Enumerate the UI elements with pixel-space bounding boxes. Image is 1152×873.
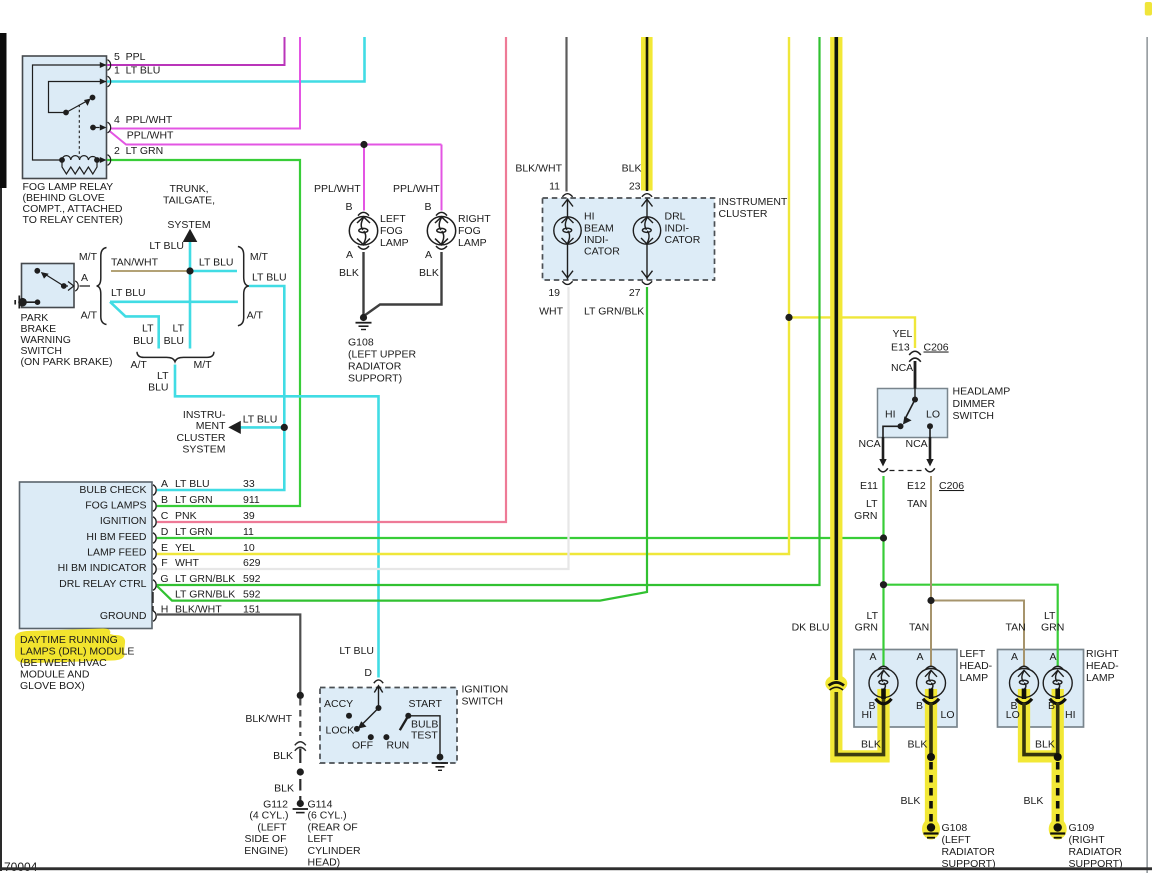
svg-text:(6 CYL.): (6 CYL.)	[308, 810, 347, 822]
svg-text:START: START	[409, 698, 443, 710]
svg-text:LO: LO	[941, 709, 955, 721]
svg-text:LT BLU: LT BLU	[111, 287, 146, 299]
ignition ground wire	[408, 716, 440, 756]
svg-text:SIDE OF: SIDE OF	[244, 833, 286, 845]
wire BLK core cluster pin 23	[646, 37, 649, 191]
svg-text:A: A	[869, 651, 876, 663]
svg-text:YEL: YEL	[175, 542, 195, 554]
svg-text:DK BLU: DK BLU	[792, 622, 830, 634]
svg-text:C206: C206	[939, 480, 964, 492]
svg-text:SUPPORT): SUPPORT)	[348, 373, 402, 385]
highlighter bulge at DK BLU inline connector	[825, 675, 847, 692]
svg-text:TAN: TAN	[907, 498, 927, 510]
svg-text:C: C	[161, 510, 169, 522]
wire BLK/WHT dashed to connector	[299, 699, 301, 736]
svg-text:INDI-: INDI-	[665, 223, 690, 235]
junction dot PPL/WHT fog feed	[360, 141, 367, 148]
svg-text:HI BM FEED: HI BM FEED	[86, 531, 147, 543]
wire LT BLU module pin A	[157, 286, 284, 490]
svg-text:RUN: RUN	[387, 740, 410, 752]
cluster lamp DRL indicator	[633, 194, 660, 285]
svg-text:CATOR: CATOR	[584, 246, 620, 258]
inline connector BLK/WHT to BLK	[295, 742, 306, 751]
svg-text:70004: 70004	[4, 860, 38, 873]
wire PPL/WHT relay pin 4	[110, 37, 300, 129]
svg-text:LT BLU: LT BLU	[243, 414, 278, 426]
highlighter blob at ground G109	[1049, 819, 1067, 840]
svg-text:B: B	[345, 201, 352, 213]
highlighter band on DK BLU wire to left headlamp HI	[836, 37, 883, 756]
svg-text:GROUND: GROUND	[100, 610, 147, 622]
svg-text:LT: LT	[867, 610, 879, 622]
headlamp dimmer switch box	[878, 389, 948, 438]
relay coil humps	[62, 156, 97, 160]
svg-text:(4 CYL.): (4 CYL.)	[249, 810, 288, 822]
headlamp bulb right HI	[1043, 666, 1072, 697]
svg-text:FOG: FOG	[458, 225, 481, 237]
svg-text:PPL/WHT: PPL/WHT	[127, 130, 174, 142]
svg-text:592: 592	[243, 589, 261, 601]
svg-text:BLK: BLK	[1035, 739, 1055, 751]
headlamp bulb left LO	[917, 666, 946, 697]
junction dot YEL E13 branch	[785, 314, 792, 321]
svg-text:LAMP: LAMP	[458, 237, 487, 249]
svg-text:RIGHT: RIGHT	[458, 213, 491, 225]
svg-text:H: H	[161, 604, 169, 616]
ignition internal dots	[376, 705, 382, 711]
svg-text:BLU: BLU	[148, 382, 168, 394]
svg-text:LEFT: LEFT	[380, 213, 406, 225]
svg-text:BLK/WHT: BLK/WHT	[245, 713, 292, 725]
svg-text:LAMP: LAMP	[1086, 672, 1115, 684]
dimmer lever	[906, 400, 916, 419]
svg-text:FOG: FOG	[380, 225, 403, 237]
svg-text:BLU: BLU	[164, 335, 184, 347]
svg-text:E11: E11	[860, 480, 878, 492]
svg-text:BLK: BLK	[622, 163, 642, 175]
svg-text:BLK: BLK	[1024, 795, 1044, 807]
svg-text:TAN: TAN	[909, 622, 929, 634]
svg-text:C206: C206	[924, 342, 949, 354]
dimmer internal feed line	[914, 361, 917, 389]
svg-text:RADIATOR: RADIATOR	[942, 846, 996, 858]
left page border bar	[0, 33, 7, 188]
svg-text:B: B	[916, 700, 923, 712]
svg-text:39: 39	[243, 510, 255, 522]
svg-text:PPL/WHT: PPL/WHT	[393, 183, 440, 195]
arrow to trunk tailgate system	[183, 229, 198, 242]
ignition switch pin D arc and arrow	[362, 680, 441, 756]
svg-text:INSTRUMENT: INSTRUMENT	[719, 196, 788, 208]
svg-text:YEL: YEL	[893, 328, 913, 340]
svg-text:11: 11	[243, 526, 254, 538]
headlamp bulb right LO	[1010, 666, 1039, 697]
dimmer LO wire	[929, 426, 931, 437]
svg-text:HI: HI	[885, 409, 896, 421]
svg-text:DAYTIME RUNNING: DAYTIME RUNNING	[20, 634, 118, 646]
junction dot TAN headlamp branch	[927, 597, 934, 604]
svg-text:A/T: A/T	[131, 359, 148, 371]
svg-text:TAN/WHT: TAN/WHT	[111, 257, 159, 269]
connector C206 dashed link	[890, 470, 925, 472]
svg-text:A: A	[425, 249, 432, 261]
wire BLK/WHT module pin H	[157, 615, 300, 696]
dimmer internal dots	[912, 397, 918, 403]
park brake internal dots	[34, 268, 40, 274]
svg-text:M/T: M/T	[250, 251, 269, 263]
svg-text:CYLINDER: CYLINDER	[308, 845, 362, 857]
wire DK BLU core upper	[834, 37, 838, 680]
headlamp bulb left HI	[869, 666, 898, 697]
ground G109 right radiator support	[1050, 823, 1065, 837]
svg-text:HEAD-: HEAD-	[960, 660, 993, 672]
svg-text:BLK/WHT: BLK/WHT	[175, 604, 222, 616]
svg-text:BULB CHECK: BULB CHECK	[79, 484, 146, 496]
svg-text:E: E	[161, 542, 168, 554]
svg-text:INDI-: INDI-	[584, 234, 609, 246]
svg-text:23: 23	[629, 181, 641, 193]
svg-text:HI: HI	[584, 211, 595, 223]
svg-text:A: A	[1011, 651, 1018, 663]
wire LT GRN module pin D to splice	[157, 537, 884, 539]
relay coil resistor zigzag	[62, 160, 97, 174]
svg-text:IGNITION: IGNITION	[100, 515, 147, 527]
svg-text:4 PPL/WHT: 4 PPL/WHT	[114, 114, 173, 126]
instrument cluster box (dashed)	[543, 198, 715, 280]
svg-text:G108: G108	[348, 337, 374, 349]
svg-text:SYSTEM: SYSTEM	[182, 443, 225, 455]
svg-text:E12: E12	[907, 480, 926, 492]
svg-text:M/T: M/T	[194, 359, 213, 371]
relay pin arcs	[108, 60, 111, 166]
svg-text:CLUSTER: CLUSTER	[176, 432, 225, 444]
svg-text:BLK: BLK	[901, 795, 921, 807]
svg-text:CLUSTER: CLUSTER	[719, 208, 768, 220]
svg-text:TO RELAY CENTER): TO RELAY CENTER)	[23, 214, 123, 226]
dimmer pin arrowheads E11 E12	[879, 459, 933, 467]
module pin G bracket	[152, 592, 154, 611]
park brake ground contact	[15, 296, 37, 309]
wire LT BLU branch to instrument cluster system	[241, 426, 285, 429]
svg-text:LT: LT	[866, 498, 878, 510]
relay actuation dashed link	[78, 105, 80, 158]
headlamp bulb right LO thick pin B and wire	[1016, 689, 1056, 755]
svg-text:PNK: PNK	[175, 510, 197, 522]
svg-text:RADIATOR: RADIATOR	[348, 361, 402, 373]
junction dot park brake TAN/WHT LT BLU	[186, 267, 193, 274]
svg-text:A/T: A/T	[247, 310, 264, 322]
headlamp bulb left LO thick pin B and ground wire	[923, 689, 939, 825]
relay arrowheads	[84, 62, 107, 163]
svg-text:M/T: M/T	[79, 251, 98, 263]
ground G112 G114	[293, 800, 308, 813]
svg-text:GLOVE BOX): GLOVE BOX)	[20, 680, 85, 692]
svg-text:NCA: NCA	[859, 438, 881, 450]
svg-text:G: G	[160, 573, 168, 585]
wire LT BLU A/T row	[110, 302, 238, 349]
svg-text:OFF: OFF	[352, 740, 373, 752]
highlighter band on right headlamp LO ground wire	[1024, 689, 1058, 756]
svg-text:LT GRN/BLK: LT GRN/BLK	[584, 306, 644, 318]
cluster lamp HI BEAM indicator	[554, 194, 581, 285]
svg-text:911: 911	[243, 494, 260, 506]
svg-text:DRL RELAY CTRL: DRL RELAY CTRL	[59, 578, 146, 590]
wire YEL module pin E	[157, 37, 789, 554]
svg-text:MODULE AND: MODULE AND	[20, 669, 90, 681]
right brace M/T A/T	[238, 247, 249, 326]
svg-text:LAMP: LAMP	[380, 237, 409, 249]
svg-text:RADIATOR: RADIATOR	[1069, 846, 1123, 858]
svg-text:(LEFT: (LEFT	[257, 822, 287, 834]
wire BLK stub below connector	[299, 749, 301, 764]
relay switch lever	[66, 102, 86, 113]
svg-text:HEADLAMP: HEADLAMP	[953, 386, 1011, 398]
svg-text:CATOR: CATOR	[665, 234, 701, 246]
wire BLK right fog lamp ground	[365, 252, 442, 316]
wire BLK dashed to G112	[299, 779, 301, 800]
svg-text:BLU: BLU	[133, 335, 153, 347]
fog lamp relay box	[23, 56, 107, 179]
svg-text:A: A	[161, 478, 168, 490]
wire PPL/WHT to fog lamps	[110, 131, 442, 211]
svg-text:LT BLU: LT BLU	[175, 478, 210, 490]
svg-text:A: A	[1049, 651, 1056, 663]
svg-text:(LEFT UPPER: (LEFT UPPER	[348, 349, 416, 361]
svg-text:HI: HI	[862, 709, 873, 721]
wire LT GRN/BLK module pin G to cluster pin 27	[157, 287, 647, 601]
svg-text:ACCY: ACCY	[324, 698, 353, 710]
highlighter band on right headlamp HI ground wire	[1052, 689, 1064, 828]
wire LT BLU relay pin 1	[107, 37, 365, 82]
park brake pin arc	[75, 281, 78, 291]
svg-text:NCA: NCA	[891, 362, 913, 374]
DRL module box	[20, 482, 153, 629]
svg-text:B: B	[1048, 700, 1055, 712]
wire BLK/WHT cluster pin 11	[565, 37, 567, 192]
svg-text:SWITCH: SWITCH	[462, 696, 503, 708]
relay internal wire pin 5 to coil	[33, 65, 107, 160]
svg-text:LEFT: LEFT	[960, 648, 986, 660]
svg-text:BLK: BLK	[861, 739, 881, 751]
svg-text:LO: LO	[926, 409, 940, 421]
svg-text:D: D	[364, 667, 372, 679]
svg-text:629: 629	[243, 557, 261, 569]
svg-text:PPL/WHT: PPL/WHT	[314, 183, 361, 195]
ignition switch lever	[362, 708, 379, 725]
dimmer lever arrowhead	[903, 416, 912, 424]
wire LT BLU trunk system vertical	[189, 242, 192, 349]
svg-text:(BETWEEN HVAC: (BETWEEN HVAC	[20, 657, 107, 669]
svg-text:11: 11	[549, 181, 560, 193]
svg-text:33: 33	[243, 478, 255, 490]
arrow to instrument cluster system	[228, 421, 241, 434]
svg-text:151: 151	[243, 604, 261, 616]
svg-text:GRN: GRN	[855, 622, 878, 634]
svg-text:A: A	[346, 249, 353, 261]
svg-text:DRL: DRL	[665, 211, 686, 223]
ignition ground symbol	[432, 754, 448, 771]
wire TAN dimmer E12 to headlamps	[931, 476, 1024, 666]
park brake warning switch box	[22, 264, 75, 308]
splice dot BLK	[297, 768, 304, 775]
svg-text:1 LT BLU: 1 LT BLU	[114, 65, 160, 77]
svg-text:BLK: BLK	[908, 739, 928, 751]
svg-text:BEAM: BEAM	[584, 223, 614, 235]
dimmer pin cup arcs E11 E12	[878, 468, 935, 472]
bottom brace A/T M/T	[137, 352, 214, 362]
highlighter blob over DRL module caption	[15, 629, 125, 664]
svg-text:LT BLU: LT BLU	[339, 645, 374, 657]
wire DK BLU core lower to left headlamp HI	[836, 692, 883, 756]
svg-text:LAMP FEED: LAMP FEED	[87, 547, 147, 559]
svg-text:10: 10	[243, 542, 255, 554]
svg-text:LAMPS (DRL) MODULE: LAMPS (DRL) MODULE	[20, 646, 134, 658]
park brake pin stub	[64, 285, 90, 287]
svg-text:BLK: BLK	[339, 267, 359, 279]
svg-text:D: D	[161, 526, 169, 538]
highlighter band on BLK wire to cluster pin 23	[641, 37, 653, 191]
svg-text:A: A	[81, 272, 88, 284]
ignition lever arrowhead	[358, 721, 367, 729]
headlamp dimmer connector C206 E13 arcs	[883, 351, 930, 460]
svg-text:LT: LT	[1044, 610, 1056, 622]
svg-text:SYSTEM: SYSTEM	[167, 219, 210, 231]
svg-text:MENT: MENT	[196, 420, 226, 432]
svg-text:LT: LT	[157, 370, 169, 382]
left page border line	[0, 188, 2, 871]
svg-text:NCA: NCA	[906, 438, 928, 450]
svg-text:BLK: BLK	[273, 750, 293, 762]
bottom border line	[0, 867, 1152, 870]
svg-text:E13: E13	[891, 342, 910, 354]
wire LT GRN relay pin 2 to module pin B	[107, 160, 300, 506]
splice dot BLK/WHT	[297, 692, 304, 699]
junction dot LT GRN pin D splice	[880, 534, 887, 541]
svg-text:HI BM INDICATOR: HI BM INDICATOR	[58, 562, 147, 574]
park brake switch lever	[46, 275, 64, 287]
svg-text:B: B	[424, 201, 431, 213]
svg-text:B: B	[161, 494, 168, 506]
svg-text:GRN: GRN	[854, 510, 877, 522]
svg-text:A/T: A/T	[81, 310, 98, 322]
ignition bulb test lever	[400, 716, 409, 730]
svg-text:ENGINE): ENGINE)	[244, 845, 288, 857]
wire TAN/WHT park brake M/T	[111, 270, 190, 272]
headlamp bulb right HI thick pin B and ground wire	[1050, 689, 1066, 825]
module pin arcs A-H	[153, 485, 156, 622]
svg-text:RIGHT: RIGHT	[1086, 648, 1119, 660]
svg-text:F: F	[161, 557, 167, 569]
wire LT BLU from braces to ignition switch pin D	[175, 365, 379, 678]
left brace M/T A/T	[97, 248, 107, 325]
svg-text:BLK: BLK	[419, 267, 439, 279]
svg-text:(LEFT: (LEFT	[942, 834, 972, 846]
relay internal wire pin 1 to switch	[49, 82, 107, 113]
ground G108 left radiator support	[924, 823, 939, 837]
ground G108 fog lamps	[356, 314, 372, 330]
right fog lamp L2	[427, 212, 455, 249]
svg-text:FOG LAMPS: FOG LAMPS	[85, 500, 146, 512]
highlighter mark top right corner	[1145, 2, 1152, 16]
svg-text:G109: G109	[1069, 822, 1095, 834]
junction dot LT BLU cluster system branch	[281, 424, 288, 431]
svg-text:LT BLU: LT BLU	[199, 257, 234, 269]
svg-text:LT GRN/BLK: LT GRN/BLK	[175, 573, 235, 585]
svg-text:LT: LT	[173, 323, 185, 335]
svg-text:LAMP: LAMP	[960, 672, 989, 684]
svg-text:19: 19	[548, 287, 560, 299]
svg-text:LT GRN/BLK: LT GRN/BLK	[175, 589, 235, 601]
svg-text:TAILGATE,: TAILGATE,	[163, 195, 215, 207]
relay pin 4 contact stub	[93, 127, 100, 129]
park brake pin open arrowhead	[68, 282, 74, 291]
svg-text:LO: LO	[1006, 709, 1020, 721]
wire LT BLU M/T stub to right brace	[190, 270, 237, 273]
right headlamp box	[998, 650, 1084, 728]
svg-text:WHT: WHT	[539, 306, 563, 318]
svg-text:LEFT: LEFT	[308, 833, 334, 845]
svg-text:LOCK: LOCK	[326, 725, 355, 737]
svg-text:TRUNK,: TRUNK,	[169, 183, 208, 195]
svg-text:HEAD-: HEAD-	[1086, 660, 1119, 672]
svg-text:HEAD): HEAD)	[308, 857, 341, 869]
svg-text:A: A	[916, 651, 923, 663]
svg-text:5 PPL: 5 PPL	[114, 51, 146, 63]
svg-text:G108: G108	[942, 822, 968, 834]
inline connector on DK BLU wire	[829, 682, 844, 690]
wire LT GRN dimmer E11 to headlamps	[884, 476, 1058, 666]
park brake lever arrowhead	[41, 272, 49, 279]
relay internal dots	[63, 110, 69, 116]
svg-text:2 LT GRN: 2 LT GRN	[114, 145, 163, 157]
headlamp bulb left HI thick pin B	[876, 689, 892, 704]
wire YEL branch to connector C206 E13	[789, 317, 915, 348]
svg-text:BLK: BLK	[274, 783, 294, 795]
wire PPL relay pin 5	[107, 37, 285, 65]
wire LT GRN/BLK module pin G up right side	[157, 37, 820, 585]
dimmer HI wire	[883, 426, 901, 437]
svg-text:BLK/WHT: BLK/WHT	[515, 163, 562, 175]
svg-text:DIMMER: DIMMER	[953, 398, 996, 410]
svg-text:LT: LT	[142, 323, 154, 335]
svg-text:GRN: GRN	[1041, 622, 1064, 634]
wire PNK module pin C	[157, 37, 506, 522]
svg-text:27: 27	[629, 287, 641, 299]
svg-text:592: 592	[243, 573, 261, 585]
svg-text:(REAR OF: (REAR OF	[308, 822, 358, 834]
relay pin 2 stub	[97, 159, 100, 161]
svg-text:INSTRU-: INSTRU-	[183, 409, 226, 421]
svg-text:(ON PARK BRAKE): (ON PARK BRAKE)	[21, 356, 113, 368]
highlighter band on left headlamp LO ground wire	[925, 689, 937, 828]
svg-text:LT BLU: LT BLU	[149, 240, 184, 252]
right page border line	[1146, 37, 1148, 873]
wire BLK left fog lamp ground	[362, 252, 364, 315]
svg-text:LT BLU: LT BLU	[252, 272, 287, 284]
highlighter blob at ground G108 right	[922, 819, 940, 840]
svg-text:LT GRN: LT GRN	[175, 526, 213, 538]
svg-text:HI: HI	[1065, 709, 1076, 721]
wire WHT module pin F to cluster pin 19	[157, 287, 569, 569]
left fog lamp L1	[349, 212, 377, 249]
svg-text:TAN: TAN	[1006, 622, 1026, 634]
left headlamp box	[854, 650, 957, 728]
svg-text:(RIGHT: (RIGHT	[1069, 834, 1106, 846]
svg-text:TEST: TEST	[411, 730, 438, 742]
junction dot LT GRN headlamp branch	[880, 581, 887, 588]
svg-text:WHT: WHT	[175, 557, 199, 569]
ignition switch box (dashed)	[320, 688, 457, 764]
